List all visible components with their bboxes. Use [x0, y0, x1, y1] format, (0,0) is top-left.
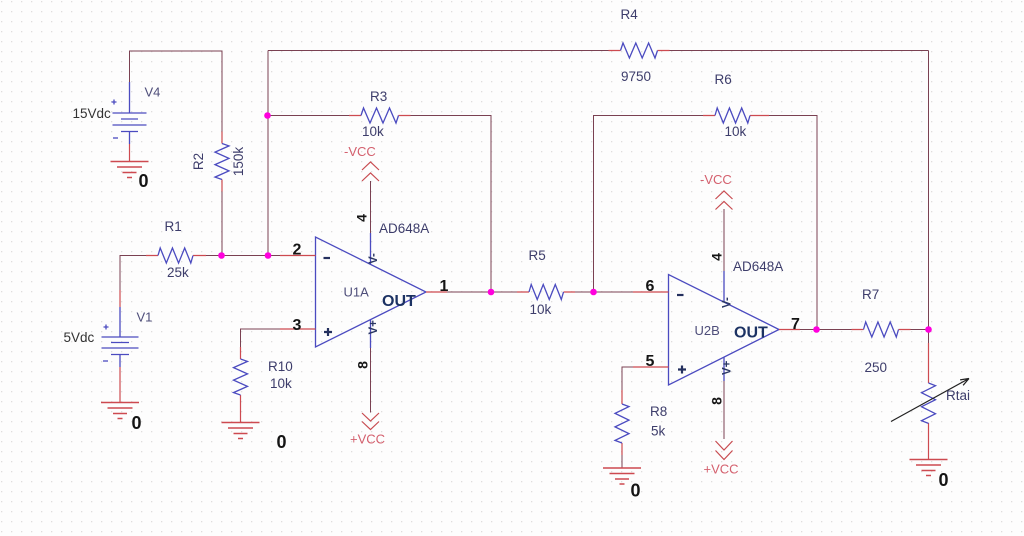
wire R2 bottom to node 2 row	[221, 192, 223, 256]
svg-text:V-: V-	[722, 297, 734, 308]
source V4 battery plates	[113, 112, 147, 114]
wire R1 right to U1A pin 2	[206, 255, 280, 257]
junction node at left rail row 2	[265, 252, 272, 259]
op-amp U1A output stub pin 1	[426, 291, 447, 293]
svg-text:150k: 150k	[231, 147, 246, 177]
resistor R3 leads	[349, 115, 411, 117]
resistor R4 leads	[609, 50, 670, 52]
source V1 pins	[119, 290, 121, 307]
svg-text:10k: 10k	[725, 124, 747, 139]
resistor R5 leads	[517, 291, 575, 293]
svg-text:8: 8	[355, 361, 371, 369]
op-amp U1A V+ power pin	[370, 320, 372, 349]
wire R4 top line left	[268, 50, 609, 52]
pin number 4 U2B	[709, 253, 725, 261]
svg-text:0: 0	[939, 470, 949, 490]
wire U1A output to R5	[447, 291, 517, 293]
op-amp U1A V- glyph	[368, 253, 380, 264]
junction node at R2 bottom	[218, 252, 225, 259]
svg-text:8: 8	[709, 397, 725, 405]
svg-text:R2: R2	[191, 153, 206, 170]
op-amp U1A pin 2 stub	[280, 255, 316, 257]
svg-text:AD648A: AD648A	[733, 259, 783, 274]
svg-text:U2B: U2B	[695, 323, 720, 338]
svg-text:1: 1	[440, 278, 449, 295]
resistor R10 leads	[240, 347, 242, 423]
wire R8 top to U2B pin 5	[622, 367, 633, 390]
svg-text:OUT: OUT	[382, 293, 416, 310]
svg-text:6: 6	[646, 278, 655, 295]
resistor R1	[158, 248, 193, 263]
svg-text:5Vdc: 5Vdc	[64, 330, 95, 345]
wire R3 left	[268, 115, 350, 117]
resistor R3	[361, 108, 399, 123]
svg-text:0: 0	[139, 171, 149, 191]
svg-text:R3: R3	[370, 89, 387, 104]
resistor R8 leads	[621, 390, 623, 455]
op-amp U2B pin 5 stub	[633, 366, 669, 368]
wire U1A V+ pin to +VCC	[370, 348, 372, 413]
resistor R2 value 150k	[231, 147, 246, 177]
variable resistor Rtai leads	[928, 343, 930, 460]
source V1 minus mark	[103, 360, 108, 362]
svg-text:10k: 10k	[270, 376, 292, 391]
svg-text:AD648A: AD648A	[379, 221, 429, 236]
op-amp U1A V+ glyph	[368, 320, 380, 335]
source V4 plus mark	[112, 100, 117, 105]
svg-text:0: 0	[631, 481, 641, 501]
source V4 pins	[129, 82, 131, 144]
junction node 7 at U2B output	[813, 326, 820, 333]
svg-text:10k: 10k	[530, 302, 552, 317]
resistor R7	[864, 322, 899, 337]
resistor R6 leads	[703, 115, 769, 117]
ground at V1	[101, 403, 139, 419]
svg-text:4: 4	[709, 253, 725, 261]
wire left feedback rail	[267, 51, 269, 256]
wire U2B V+ pin to +VCC	[723, 381, 725, 439]
pin number 8	[355, 361, 371, 369]
Rtai arrow	[891, 379, 969, 422]
svg-text:25k: 25k	[167, 265, 189, 280]
op-amp U2B V- power pin	[723, 271, 725, 302]
svg-text:Rtai: Rtai	[946, 388, 970, 403]
svg-text:OUT: OUT	[734, 325, 768, 342]
svg-text:+VCC: +VCC	[350, 432, 385, 447]
resistor R2	[215, 144, 229, 180]
pin number 4	[354, 214, 370, 222]
op-amp U2B plus input mark	[678, 366, 686, 374]
svg-text:V4: V4	[145, 85, 161, 100]
op-amp U1A minus input mark	[324, 257, 331, 259]
svg-text:R8: R8	[650, 404, 667, 419]
source V1 plus mark	[104, 325, 109, 330]
junction node 1 at U1A output	[488, 289, 495, 296]
resistor R10	[234, 359, 248, 395]
pin number 8 U2B	[709, 397, 725, 405]
ground at Rtai	[910, 460, 948, 476]
source V1 battery plates	[102, 336, 139, 338]
junction node at R3 left	[264, 112, 271, 119]
junction node at R6 left rail	[590, 289, 597, 296]
resistor R8	[615, 404, 629, 443]
wire R8 bottom to ground	[621, 455, 623, 468]
wire U1A V- pin to -VCC	[370, 181, 372, 233]
junction node at R7 right	[925, 326, 932, 333]
+VCC symbol below U1A	[362, 413, 379, 430]
variable resistor Rtai	[922, 383, 936, 423]
svg-text:2: 2	[293, 242, 302, 259]
svg-text:V+: V+	[722, 360, 734, 375]
wire U2B V- pin to -VCC	[723, 209, 725, 271]
resistor R2 leads	[221, 132, 223, 192]
svg-text:V1: V1	[137, 310, 153, 325]
svg-text:R7: R7	[862, 287, 879, 302]
svg-text:5: 5	[646, 353, 655, 370]
op-amp U1A plus input mark	[324, 328, 332, 336]
op-amp U1A pin 3 stub	[280, 328, 316, 330]
wire R6 right down to node 7	[769, 116, 817, 330]
resistor R5	[529, 285, 564, 300]
svg-text:V-: V-	[368, 253, 380, 264]
wire V1 to ground	[119, 367, 121, 403]
svg-text:250: 250	[865, 360, 888, 375]
svg-text:0: 0	[277, 432, 287, 452]
op-amp U2B V+ glyph	[722, 360, 734, 375]
wire V4 to ground	[129, 144, 131, 162]
resistor R2 label	[191, 153, 206, 170]
op-amp U2B V+ power pin	[723, 358, 725, 382]
wire R3 right down to output node 1	[411, 116, 492, 293]
op-amp U2B pin 6 stub	[633, 291, 669, 293]
ground at R10	[222, 423, 260, 439]
svg-text:9750: 9750	[621, 69, 651, 84]
svg-text:V+: V+	[368, 320, 380, 335]
svg-text:4: 4	[354, 214, 370, 222]
op-amp U2B minus input mark	[677, 294, 684, 296]
svg-text:5k: 5k	[651, 424, 666, 439]
+VCC symbol below U2B	[716, 441, 733, 460]
wire R5 to U2B pin 6	[575, 291, 633, 293]
svg-text:-VCC: -VCC	[344, 144, 376, 159]
source V4 minus mark	[113, 137, 118, 139]
svg-text:+VCC: +VCC	[704, 462, 739, 477]
resistor R6	[715, 108, 750, 123]
svg-text:U1A: U1A	[344, 285, 370, 300]
wire R10 top to U1A pin 3	[241, 329, 281, 347]
resistor R7 leads	[852, 329, 911, 331]
svg-text:R1: R1	[165, 219, 182, 234]
svg-text:R10: R10	[268, 359, 293, 374]
op-amp U2B body	[669, 275, 780, 386]
ground at R8	[603, 468, 641, 484]
wire R4 top line right	[670, 50, 929, 52]
svg-text:10k: 10k	[362, 124, 384, 139]
resistor R4	[621, 43, 658, 58]
svg-text:3: 3	[293, 317, 302, 334]
op-amp U2B V- glyph	[722, 297, 734, 308]
svg-text:0: 0	[132, 413, 142, 433]
svg-text:-VCC: -VCC	[700, 172, 732, 187]
wire node to Rtai	[928, 330, 930, 344]
op-amp U1A body	[316, 237, 427, 347]
-VCC symbol above U1A	[362, 162, 379, 181]
svg-text:R4: R4	[621, 7, 639, 22]
-VCC symbol above U2B	[716, 191, 733, 210]
wire V4 top loop to R2	[130, 51, 223, 132]
resistor R1 leads	[146, 255, 206, 257]
svg-text:15Vdc: 15Vdc	[73, 106, 112, 121]
op-amp U2B output stub pin 7	[779, 329, 800, 331]
wire R7 right to node	[911, 329, 929, 331]
wire R6 left down to pin 6 row	[594, 116, 704, 293]
ground at V4	[111, 162, 149, 178]
op-amp U1A V- power pin	[370, 233, 372, 265]
svg-text:7: 7	[791, 316, 800, 333]
wire V1 top corner to R1	[120, 256, 146, 291]
svg-text:R6: R6	[715, 72, 732, 87]
wire right rail R4 to node 7	[928, 51, 930, 330]
wire U2B output to R7	[800, 329, 852, 331]
svg-text:R5: R5	[529, 248, 546, 263]
